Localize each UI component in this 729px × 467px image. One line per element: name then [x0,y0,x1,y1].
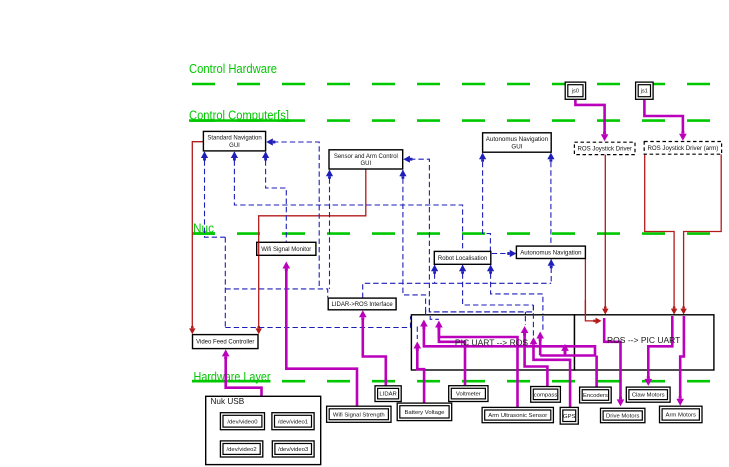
svg-text:ROS Joystick Driver (arm): ROS Joystick Driver (arm) [648,145,719,152]
wire ROS topic: blue drop x=533 into PIC UART box [532,305,534,340]
svg-text:ROS --> PIC UART: ROS --> PIC UART [607,335,680,345]
svg-text:/dev/video2: /dev/video2 [227,447,257,453]
wire (magenta) Wifi Signal Strength to Wifi Signal Monitor [286,269,357,406]
wire video feed 2 (red) from Sensor and Arm Control GUI to Video Feed Controller [259,169,366,328]
node Sensor and Arm Control GUI [329,150,403,169]
wire (red) arm joystick right bracket to ROS->PIC UART [684,154,722,307]
red arrow into ROS->PIC UART top (arm 1) [671,309,677,315]
node Video Feed Controller [193,335,259,349]
magenta arrow tip mid [536,332,544,339]
magenta arrow into Drive Motors top [617,399,625,406]
wire fragments redrawn inside PIC UART boxes [429,300,533,312]
wire (red) Autonomus Navigation to ROS->PIC UART [585,259,594,321]
wire (magenta) js1 to ROS Joystick Driver (arm) [644,99,683,133]
svg-text:Autonomus Navigation: Autonomus Navigation [486,136,549,143]
wire ROS topic: Sensor GUI bottom-right leg down to bus [403,170,426,315]
device Voltmeter [449,386,488,402]
device Battery Voltage [397,403,452,421]
blue arrow into Robot Localisation bottom-left [431,265,438,272]
wire (magenta) Battery Voltage into PIC UART box [417,349,424,403]
wire (magenta) Arm Motors [680,316,684,398]
svg-text:/dev/video3: /dev/video3 [278,447,309,453]
magenta arrow into Wifi Signal Monitor bottom [283,262,291,269]
svg-text:Arm Ultrasonic Sensor: Arm Ultrasonic Sensor [488,413,547,419]
wire (magenta) encoder pair arrow stem [564,351,567,356]
svg-text:js0: js0 [571,89,579,95]
svg-text:PIC UART --> ROS: PIC UART --> ROS [455,338,528,348]
svg-text:js1: js1 [640,89,648,95]
blue arrow into Robot Localisation bottom-right [487,265,494,272]
device Claw Motors [626,387,670,402]
svg-text:Voltmeter: Voltmeter [456,392,481,398]
magenta arrow into LIDAR-ROS Interface bottom [359,310,367,317]
wire ROS topic: small fragment x=417 [416,327,418,340]
svg-text:GUI: GUI [361,161,372,167]
magenta arrow into Arm Motors top [676,399,684,406]
node Nuc USB box [206,396,321,464]
wire (magenta) bidirectional loop inside PIC UART boxes [424,327,595,356]
wire ROS topic: Robot Localisation bottom-centre leg [463,265,534,305]
node Robot Localisation [434,251,491,264]
wire (magenta) Voltmeter to arrow [439,328,465,386]
wire ROS topic to PIC UART box corner [225,316,410,327]
device Encoders [580,387,612,403]
svg-text:/dev/video0: /dev/video0 [227,419,258,425]
magenta arrow into ROS Joystick Driver (arm) top [679,134,687,141]
red arrow into Video Feed Controller top-left [189,328,195,334]
device /dev/video3 [272,441,314,457]
svg-text:GUI: GUI [511,143,522,150]
separator: Hardware Layer line [192,380,729,383]
device Drive Motors [601,408,645,422]
wire (magenta) GPS [534,345,571,408]
blue arrow into Std Nav GUI right edge [266,138,273,145]
svg-text:compass: compass [534,392,558,398]
node Autonomus Navigation GUI [483,133,552,152]
svg-text:Nuk USB: Nuk USB [211,397,245,406]
wire ROS topic: Std Nav GUI centre to Robot Localisation [234,152,462,251]
svg-text:Standard Navigation: Standard Navigation [207,136,261,142]
blue arrow into Autonomus Navigation left edge [510,250,517,257]
blue arrow into Autonomus Nav GUI bottom-right [547,153,554,160]
device js0 [565,82,585,99]
node Standard Navigation GUI [203,131,265,151]
svg-text:ROS Joystick Driver: ROS Joystick Driver [577,146,632,153]
wire (red) ROS Joystick Driver to ROS->PIC UART [604,155,606,307]
wire ROS topic: Robot Localisation bottom-right leg [491,265,543,331]
red arrow into Video Feed Controller top-right [255,328,261,334]
blue arrow into Sensor GUI bottom-left [326,170,333,177]
red arrow right inside ROS->PIC UART [596,318,602,324]
blue arrow into Sensor GUI right edge [403,156,410,163]
device compass [531,387,561,403]
magenta arrow compass end [521,326,529,333]
wire ROS topic: Std Nav GUI left leg [205,152,226,237]
wire ROS topic: small corner fragment x=430 [430,316,439,319]
svg-text:Wifi Signal Monitor: Wifi Signal Monitor [261,247,311,253]
wire ROS topic: Robot Localisation bottom-left stub [434,265,436,283]
blue arrow into Sensor GUI bottom-right [399,170,406,177]
magenta arrow Battery Voltage end [414,342,422,349]
wire ROS topic: small fragment x=525 [524,312,526,325]
device /dev/video2 [220,441,262,457]
svg-text:Arm Motors: Arm Motors [666,413,696,419]
wire ROS topic: into Std Nav GUI right edge [273,142,319,289]
node Autonomus Navigation [516,246,585,258]
red arrow into ROS->PIC UART top (arm 2) [680,309,686,315]
svg-text:GUI: GUI [229,143,240,149]
magenta arrow into Claw Motors top [645,379,653,386]
blue arrow into Std Nav GUI bottom-centre [231,151,238,158]
node ROS Joystick Driver (arm) [644,142,721,155]
separator: Control Hardware line [192,83,729,86]
wire (magenta) Claw Motors [648,316,672,379]
wire (magenta) compass [525,333,548,386]
wire video feed 1 (red) from Standard Navigation GUI to Video Feed Controller [192,142,203,328]
node Wifi Signal Monitor [257,242,316,255]
red arrow fragments redrawn [585,300,594,321]
device /dev/video0 [220,413,264,430]
wire ROS topic vertical x=225 [224,237,226,327]
magenta arrow into ROS Joystick Driver top [601,134,609,141]
wire ROS topic: into Sensor GUI right edge, long run to PIC UART box [410,159,533,312]
device /dev/video1 [272,413,314,430]
device GPS [560,407,578,424]
wire (magenta) js0 to ROS Joystick Driver [575,99,604,134]
svg-text:LIDAR: LIDAR [379,392,396,398]
svg-text:GPS: GPS [563,414,576,420]
blue arrow into Autonomus Navigation bottom [548,259,555,266]
svg-text:LIDAR->ROS Interface: LIDAR->ROS Interface [332,302,394,308]
magenta arrow tip x=565 [561,344,569,351]
wire ROS topic: Autonomus Nav GUI right leg [550,154,552,246]
svg-text:Battery Voltage: Battery Voltage [404,410,445,416]
node LIDAR->ROS Interface [328,298,396,310]
svg-text:Encoders: Encoders [583,393,608,399]
blue arrow into Std Nav GUI bottom-right [262,151,269,158]
magenta arrow tip left [420,320,428,327]
device Wifi Signal Strength [327,406,391,422]
wire (magenta) Nuc USB to Video Feed Controller [226,358,262,396]
wire (magenta) Arm Ultrasonic Sensor to arrow [439,328,518,408]
wire (magenta) Drive Motors [604,318,620,399]
svg-text:Video Feed Controller: Video Feed Controller [196,340,254,346]
device Arm Ultrasonic Sensor [482,407,553,422]
magenta arrow into Video Feed Controller bottom [222,349,230,356]
wire ROS topic: Std Nav GUI right to Wifi Signal Monitor [266,152,287,242]
svg-text:Control Hardware: Control Hardware [189,62,277,76]
svg-text:Robot Localisation: Robot Localisation [438,256,487,262]
blue arrow into Robot Localisation bottom-centre [459,265,466,272]
wire (red) arm joystick left bracket to ROS->PIC UART [645,154,674,307]
wire ROS topic bus y=283 [363,283,552,298]
blue arrow into Autonomus Nav GUI bottom-left [479,153,486,160]
svg-text:Drive Motors: Drive Motors [606,414,639,420]
wire ROS topic: Sensor GUI bottom-left leg [329,170,331,289]
separator: NUC line [192,232,729,235]
wire (magenta) LIDAR to LIDAR-ROS Interface [363,318,386,386]
wire red overlap through Wifi Signal Monitor [258,242,260,255]
magenta arrow GPS end [530,337,538,344]
red arrow into ROS->PIC UART top [602,309,608,315]
magenta arrow Voltmeter/Ultrasonic end [435,321,443,328]
wire ROS topic to LIDAR-ROS interface top-left [225,289,327,298]
svg-text:/dev/video1: /dev/video1 [278,419,308,425]
wire ROS topic: Autonomus Navigation bottom stub to bus [550,259,552,283]
device Arm Motors [660,406,703,423]
svg-text:Wifi Signal Strength: Wifi Signal Strength [333,412,385,418]
device js1 [636,82,654,99]
svg-text:Autonomus Navigation: Autonomus Navigation [520,249,581,256]
wire ROS topic: Autonomus Nav GUI left leg to Autonomus Navigation [483,154,507,254]
svg-text:Claw Motors: Claw Motors [632,393,665,399]
svg-text:Sensor and Arm Control: Sensor and Arm Control [334,154,398,160]
wire (magenta) Encoders up to junction [595,356,598,388]
blue arrow into Std Nav GUI bottom-left [201,151,208,158]
node ROS Joystick Driver [574,142,635,154]
device LIDAR [375,386,401,402]
separator: Control Computer line [192,119,729,122]
